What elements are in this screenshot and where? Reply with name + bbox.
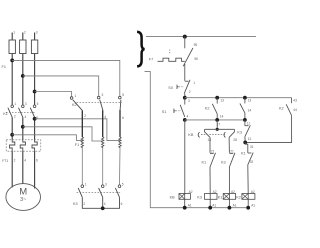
heater FT1 pole2	[20, 140, 25, 151]
svg-text:1: 1	[75, 94, 77, 98]
svg-text:3: 3	[188, 99, 190, 103]
button S0 stop	[185, 80, 189, 82]
svg-text:1: 1	[13, 31, 15, 35]
node K1 pole3 out	[33, 117, 37, 121]
svg-text:13: 13	[248, 98, 252, 102]
contact K1 21-22 NC	[210, 152, 214, 154]
svg-text:K1: K1	[202, 161, 207, 165]
wire F7 top	[184, 37, 186, 49]
svg-text:A2: A2	[251, 190, 255, 194]
button S1 start	[184, 98, 186, 105]
node K1 pole2 out	[21, 125, 25, 129]
svg-text:K3: K3	[73, 202, 78, 206]
wire tap L2 to K2 pole2	[23, 76, 99, 96]
wire to K1 coil	[228, 167, 230, 194]
svg-text:31: 31	[250, 145, 254, 149]
trip link F7	[169, 50, 171, 54]
svg-text:28: 28	[233, 138, 237, 142]
wire tap L1 to K2 pole3	[12, 60, 120, 96]
contact K1 13-14	[243, 96, 247, 100]
svg-text:2: 2	[14, 158, 16, 162]
wire col1 to KT coil	[184, 120, 186, 194]
svg-text:K1: K1	[241, 151, 246, 155]
svg-text:3: 3	[36, 31, 38, 35]
svg-text:4: 4	[104, 202, 106, 206]
wire phase L3	[34, 33, 36, 41]
svg-text:12: 12	[248, 137, 252, 141]
svg-text:2: 2	[84, 114, 86, 118]
wire to K3 coil	[209, 167, 211, 194]
fuse F1 pole 1	[9, 40, 15, 54]
node 43-44 join	[243, 141, 247, 145]
contactor K3 blade pole2	[99, 188, 103, 197]
node 4	[183, 118, 187, 122]
heater FT1 pole3	[32, 140, 37, 151]
wire K1 pole2 to K2 col2	[23, 127, 103, 141]
brace network	[137, 32, 145, 67]
svg-text:14: 14	[220, 115, 224, 119]
contactor K3 blade pole3	[115, 188, 119, 197]
contactor K1 blade pole1	[8, 108, 12, 118]
wire tap L3 to K2 pole1	[35, 92, 72, 97]
svg-text:K1: K1	[218, 196, 223, 200]
svg-text:1: 1	[14, 102, 16, 106]
wire FT1 to motor pole2	[22, 151, 24, 184]
wire phase L2	[22, 33, 24, 41]
svg-text:3: 3	[102, 93, 104, 97]
svg-text:18: 18	[208, 138, 212, 142]
svg-text:95: 95	[194, 43, 198, 47]
svg-text:6: 6	[121, 202, 123, 206]
wire KT right down	[228, 137, 230, 153]
contactor K1 pole2 terminal	[22, 105, 25, 108]
wire FT1 to motor pole1	[11, 151, 13, 187]
svg-text:44: 44	[293, 108, 297, 112]
svg-text:3: 3	[25, 102, 27, 106]
contactor K2 blade pole3	[119, 100, 122, 110]
wire node3 rail	[185, 97, 292, 99]
wire K1 pole3 down	[34, 117, 36, 140]
node star point	[101, 206, 105, 210]
resistor F1 element3	[119, 137, 121, 148]
svg-text:KB: KB	[170, 196, 176, 200]
svg-text:21: 21	[230, 149, 234, 153]
wire control N riser	[145, 72, 250, 208]
wire K1 pole2 down	[22, 117, 24, 140]
wire K1 pole1 to K2 col1	[12, 135, 82, 141]
node tap L1	[10, 59, 14, 63]
svg-text:A1: A1	[188, 204, 192, 208]
wire resistor2 to K3	[102, 148, 104, 185]
svg-text:K2: K2	[236, 196, 241, 200]
contact K3 21-22 NC	[229, 152, 233, 154]
contactor K3 pole2 terminal	[101, 185, 104, 188]
svg-text:43: 43	[293, 99, 297, 103]
svg-text:4: 4	[187, 115, 189, 119]
contactor K1 pole1 terminal	[11, 105, 14, 108]
contactor K3 pole1 terminal	[81, 185, 84, 188]
node 3	[183, 96, 187, 100]
contactor K3 pole3 terminal	[118, 185, 121, 188]
contact KT 17-18 delayed	[204, 129, 206, 132]
svg-text:K2: K2	[279, 106, 284, 110]
svg-text:5: 5	[122, 182, 124, 186]
svg-text:4: 4	[25, 115, 27, 119]
svg-text:F7: F7	[149, 57, 153, 61]
contact K2 13-14	[215, 96, 219, 100]
coil K1	[223, 194, 235, 200]
wire S0 to node3	[184, 94, 186, 98]
wire control L top rail	[146, 36, 256, 38]
coil KB timer	[179, 194, 190, 200]
svg-text:21: 21	[211, 149, 215, 153]
svg-text:S0: S0	[168, 86, 173, 90]
node control feed	[183, 35, 187, 39]
wire KT left down	[209, 137, 211, 153]
svg-text:A2: A2	[213, 190, 217, 194]
svg-text:2: 2	[83, 202, 85, 206]
svg-text:F1: F1	[75, 143, 79, 147]
overload relay FT1 box	[6, 140, 41, 151]
contact K1 31-32 NC	[245, 142, 248, 153]
svg-text:A2: A2	[231, 190, 235, 194]
svg-text:11: 11	[247, 122, 251, 126]
svg-text:32: 32	[250, 160, 254, 164]
svg-text:3~: 3~	[20, 197, 26, 203]
contactor K1 blade pole3	[30, 108, 34, 118]
svg-text:A1: A1	[212, 204, 216, 208]
svg-text:13: 13	[220, 99, 224, 103]
contact K2 43-44	[291, 98, 293, 104]
motor M1	[6, 184, 41, 211]
svg-text:96: 96	[194, 57, 198, 61]
svg-text:6: 6	[36, 158, 38, 162]
coil K2	[242, 194, 255, 200]
resistor F1 element2	[101, 137, 103, 148]
svg-text:5: 5	[37, 102, 39, 106]
svg-text:6: 6	[36, 116, 38, 120]
contactor K1 blade pole2	[19, 108, 23, 118]
thermal element F7	[158, 58, 185, 61]
svg-text:K3: K3	[221, 161, 226, 165]
contact F7 NC	[183, 48, 193, 66]
contactor K2 pole2 terminal	[97, 96, 100, 99]
svg-text:3: 3	[105, 182, 107, 186]
svg-text:A1: A1	[251, 204, 255, 208]
mechanical link K1	[6, 111, 36, 113]
svg-text:KB: KB	[188, 133, 194, 137]
svg-text:6: 6	[122, 116, 124, 120]
svg-text:4: 4	[24, 158, 26, 162]
wire K1 pole3 to K2 col3	[35, 119, 120, 141]
svg-text:A1: A1	[233, 204, 237, 208]
wire resistor1 to K3	[81, 148, 83, 185]
contactor K3 blade pole1	[78, 188, 82, 197]
resistor F1 element1	[81, 137, 83, 148]
wire K2 pole1 down	[81, 110, 83, 137]
contactor K1 pole3 terminal	[33, 105, 36, 108]
wire F7 to S0	[184, 64, 186, 81]
contactor K2 blade pole1	[73, 100, 83, 111]
wire phase L1	[11, 33, 13, 41]
svg-text:FT1: FT1	[2, 159, 8, 163]
svg-text:2: 2	[189, 90, 191, 94]
fuse F1 pole 2	[20, 40, 26, 54]
mechanical link K2	[77, 101, 123, 103]
wire FT1 to motor pole3	[34, 151, 36, 188]
svg-text:A2: A2	[189, 190, 193, 194]
wire resistor3 to K3	[119, 148, 122, 185]
node K1 pole1 out	[10, 133, 14, 137]
wire K3 star bar	[82, 197, 119, 208]
wire node4 rail	[185, 119, 245, 121]
node tap L2	[21, 74, 25, 78]
wire K2 pole2 down	[102, 110, 104, 137]
fuse F1 pole 3	[31, 40, 37, 54]
wire to K2 coil	[247, 165, 249, 194]
svg-text:2: 2	[24, 31, 26, 35]
svg-text:14: 14	[248, 108, 252, 112]
timer KT delayed contacts	[216, 120, 218, 129]
contactor K2 pole3 terminal	[119, 96, 122, 99]
wire K2 pole3 down	[119, 110, 121, 137]
mechanical link K3	[77, 191, 122, 193]
mechanical link KT	[201, 134, 226, 136]
svg-text:1: 1	[193, 81, 195, 85]
svg-text:4: 4	[104, 115, 106, 119]
heater FT1 pole1	[10, 140, 15, 151]
contactor K2 pole1 terminal	[70, 97, 73, 100]
node tap L3	[33, 90, 37, 94]
coil K3	[205, 194, 218, 200]
contact KT 27-28 delayed	[233, 129, 235, 132]
svg-text:5: 5	[122, 93, 124, 97]
svg-text:2: 2	[14, 115, 16, 119]
svg-text:K2: K2	[205, 107, 210, 111]
svg-text:K3: K3	[237, 130, 242, 134]
svg-text:K3: K3	[197, 196, 202, 200]
wire K1 pole1 down	[11, 117, 13, 140]
svg-text:F1: F1	[2, 65, 6, 69]
contactor K2 blade pole2	[100, 100, 103, 110]
svg-text:S1: S1	[162, 110, 167, 114]
svg-text:1: 1	[85, 182, 87, 186]
